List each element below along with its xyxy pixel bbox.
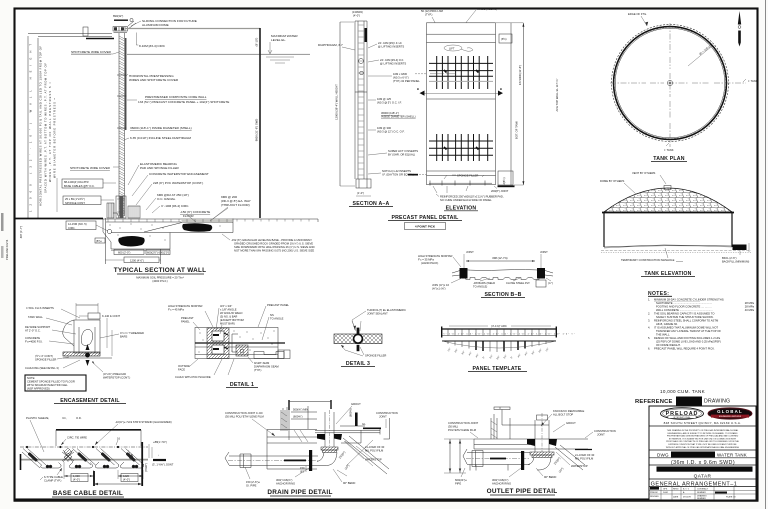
svg-text:PROPRIETARY AND DESIGN FEATURE: PROPRIETARY AND DESIGN FEATURES OF PRELO… [667, 435, 739, 438]
base cable detail: top labels [26, 416, 172, 452]
outlet pipe detail: left dim lines [444, 439, 474, 473]
svg-text:BOT. OF TANK: BOT. OF TANK [515, 121, 519, 139]
tank elevation: manhole callout [621, 248, 683, 262]
typical wall section: concrete floor callout [180, 210, 210, 218]
svg-text:150 (2'-6")⌀: 150 (2'-6")⌀ [246, 480, 260, 484]
panel template: rotated dims below [447, 347, 550, 360]
precast panel elevation: rubber pad note [436, 194, 504, 202]
svg-text:AVG TOP WALL EL 117'-¾": AVG TOP WALL EL 117'-¾" [555, 78, 559, 111]
svg-text:GLOBAL: GLOBAL [717, 409, 743, 414]
typical wall section: wall top cap / sliding connection [83, 14, 136, 39]
svg-text:ALL BOLT STOP: ALL BOLT STOP [553, 413, 573, 417]
svg-text:WITHOUT APPROVAL OF PRELOAD IN: WITHOUT APPROVAL OF PRELOAD INTERNATIONA… [666, 446, 740, 449]
svg-text:890(32"): 890(32") [113, 14, 123, 18]
drain pipe detail: grout callout [336, 402, 361, 424]
svg-text:THIOKOL(?) EL ELASTOMERIC: THIOKOL(?) EL ELASTOMERIC [367, 308, 406, 312]
svg-text:LEVEL EL.: LEVEL EL. [271, 38, 286, 42]
drain pipe detail: vertical pipe [325, 410, 334, 447]
svg-text:28 MPa: 28 MPa [745, 305, 755, 309]
base cable detail: cable loop 2 [69, 449, 95, 469]
svg-text:FOOTING AND FLOOR CONCRETE ...: FOOTING AND FLOOR CONCRETE .... .... ...… [656, 305, 712, 309]
svg-text:JOINT SEALANT: JOINT SEALANT [367, 312, 388, 316]
svg-text:SPONGE FILLER: SPONGE FILLER [35, 358, 56, 362]
svg-text:90° BEND: 90° BEND [544, 475, 556, 479]
section A-A: right callouts [368, 41, 420, 177]
typical wall section: inside diameter callout [130, 126, 192, 130]
svg-text:EDGE OF FTG.: EDGE OF FTG. [628, 12, 647, 16]
svg-text:DGM: DGM [663, 492, 668, 494]
svg-text:09/12/78: 09/12/78 [683, 497, 692, 499]
svg-text:(THRUOUT FLOOR): (THRUOUT FLOOR) [221, 203, 250, 207]
svg-text:SUPER LIFT II INSERTS: SUPER LIFT II INSERTS [388, 149, 418, 153]
base cable detail: cable loop 3 [95, 449, 119, 469]
svg-text:(EXCEPT BOTTOM: (EXCEPT BOTTOM [220, 318, 245, 322]
svg-text:10M @ 125: 10M @ 125 [377, 97, 391, 101]
svg-text:(N0.3 @ 5") O.C. I.F.: (N0.3 @ 5") O.C. I.F. [377, 101, 402, 105]
svg-text:3 '-10M [#3-4] CIRC.: 3 '-10M [#3-4] CIRC. [161, 204, 189, 208]
svg-text:6.35 (0.010") INCLINE STEEL DI: 6.35 (0.010") INCLINE STEEL DIAPHRAGM [130, 136, 191, 140]
typical wall section: pvc waterstop callout [136, 181, 203, 205]
svg-text:SECTION B–B: SECTION B–B [484, 292, 521, 298]
typical wall section: base cable box callouts left [62, 179, 116, 231]
svg-text:SPACED WITH WIRES ,P.T. AT BO: SPACED WITH WIRES ,P.T. AT BOTTOM TO WIR… [44, 63, 48, 193]
svg-text:BY PATENTS. IT IS SUBMITTED FO: BY PATENTS. IT IS SUBMITTED FOR USE ONLY… [669, 437, 737, 440]
svg-text:300("x⅜6(⅜"): 300("x⅜6(⅜") [276, 478, 293, 482]
svg-text:500(⅜") MIN.: 500(⅜") MIN. [293, 408, 309, 412]
svg-text:CLAMP (TYP.): CLAMP (TYP.) [44, 479, 61, 483]
svg-text:PLATE: 18: PLATE: 18 [726, 496, 736, 499]
svg-text:NUMBER: NUMBER [697, 492, 706, 494]
svg-text:WALL CONCRETE ................: WALL CONCRETE ..........................… [656, 308, 713, 312]
detail 3: sponge filler callout [341, 345, 386, 358]
svg-text:MIL POLYFILM: MIL POLYFILM [575, 457, 594, 461]
outlet pipe detail: right diagonals [553, 445, 595, 474]
svg-text:1,000: 1,000 [73, 474, 80, 478]
svg-text:B: B [417, 87, 419, 91]
svg-text:(4'-0"): (4'-0") [123, 478, 130, 482]
svg-text:(TYP.): (TYP.) [425, 13, 433, 17]
encasement detail: right callouts [92, 314, 144, 380]
outlet pipe detail: floor slab [474, 439, 592, 450]
typical wall section: left small box [95, 238, 105, 243]
svg-text:GROUT: GROUT [351, 402, 361, 406]
svg-text:36000 (118'-1") INSIDE DIAMETE: 36000 (118'-1") INSIDE DIAMETER (SHELL) [130, 126, 192, 130]
detail 1: title [226, 382, 258, 388]
typical wall section: floor rebar callout [210, 195, 251, 221]
svg-text:600 (2'-0"): 600 (2'-0") [118, 251, 130, 255]
svg-text:1.: 1. [648, 298, 650, 302]
typical wall section: rotated dims on boundary [255, 38, 259, 142]
svg-text:PROPOSALS OR CONTRACTS OF PREL: PROPOSALS OR CONTRACTS OF PRELOAD OR ITS… [666, 440, 739, 443]
base cable detail: heavy verticals [94, 442, 142, 486]
svg-text:B: B [500, 87, 502, 91]
svg-text:SHOTCRETE WIRE COVER: SHOTCRETE WIRE COVER [70, 166, 111, 170]
svg-text:4 POINT PICK: 4 POINT PICK [415, 225, 436, 229]
tank elevation: backfill block [733, 245, 747, 251]
tank elevation: tank wall [604, 212, 732, 247]
precast panel elevation: main rectangle [427, 23, 496, 185]
panel template: arc dim [449, 324, 551, 328]
svg-text:⅜"x ¾" THREADED: ⅜"x ¾" THREADED [120, 331, 144, 335]
section A-A: title [349, 201, 393, 207]
precast panel elevation: lower grid extras [444, 147, 479, 150]
precast panel elevation: sponge filler band [444, 174, 484, 180]
svg-text:THE WALL.: THE WALL. [656, 333, 670, 337]
svg-text:28 MPa: 28 MPa [745, 301, 755, 305]
svg-text:50 (12) PROJ.-6M: 50 (12) PROJ.-6M [421, 9, 444, 13]
svg-text:10,000 CUM. TANK: 10,000 CUM. TANK [660, 389, 706, 394]
svg-text:24'- 10M [#3-4] O.F.: 24'- 10M [#3-4] O.F. [380, 58, 404, 62]
svg-text:OUTSIDE: OUTSIDE [178, 364, 190, 368]
svg-text:CIRC.: CIRC. [68, 226, 76, 230]
typical wall section: circ bars callout [152, 204, 189, 213]
svg-text:9600 (31'-6") SWD: 9600 (31'-6") SWD [255, 119, 259, 141]
typical wall section: maximum water level [127, 34, 310, 63]
svg-text:VENT BY OTHERS: VENT BY OTHERS [632, 171, 656, 175]
precast panel elevation: right dim lines [496, 23, 559, 185]
drain pipe detail: construction joint right [376, 411, 398, 428]
svg-text:228 (9") PVC WATERSTOP (CONT.): 228 (9") PVC WATERSTOP (CONT.) [153, 181, 203, 185]
svg-text:REVISED: REVISED [650, 496, 659, 498]
drain pipe detail: waterstop wedges [317, 434, 342, 440]
notes header [648, 291, 672, 297]
drain pipe detail: 90 bend callout [333, 469, 355, 485]
typical wall section: waterstop encasement callout [132, 172, 209, 196]
svg-text:CONSTRUCTION: CONSTRUCTION [594, 429, 616, 433]
base cable detail: top bracket [56, 430, 141, 446]
svg-text:THE SOIL BEARING CAPACITY IS A: THE SOIL BEARING CAPACITY IS ASSUMED TO [654, 312, 714, 316]
svg-text:-10(⅜")⌀ 7x19 STR'D STRAND (GA: -10(⅜")⌀ 7x19 STR'D STRAND (GALVANIZED) [115, 420, 172, 424]
svg-text:TYPICAL SECTION AT WALL: TYPICAL SECTION AT WALL [114, 267, 207, 274]
svg-text:1200 (4'-0"): 1200 (4'-0") [130, 259, 144, 263]
outlet pipe detail: horizontal pipe [463, 449, 530, 471]
svg-text:I.D.,: I.D., [62, 416, 67, 420]
svg-text:PRESTRESSED COMPOSITE CORE WAL: PRESTRESSED COMPOSITE CORE WALL [145, 95, 207, 99]
typical wall section: steel diaphragm callout [124, 136, 191, 140]
precast panel elevation: titles [388, 206, 478, 230]
svg-text:MIL POLYFILM: MIL POLYFILM [365, 449, 384, 453]
svg-text:PRELIM: PRELIM [650, 492, 658, 494]
svg-text:DETAIL 1: DETAIL 1 [230, 382, 254, 388]
svg-text:(600⅜"): (600⅜") [293, 415, 303, 419]
outlet pipe detail: anchor ring callout [492, 468, 521, 486]
section B-B: dim line [466, 256, 535, 262]
svg-text:LIFT: LIFT [449, 47, 455, 51]
svg-text:2(6½): 2(6½) [502, 177, 506, 184]
svg-text:3.: 3. [648, 319, 650, 323]
svg-text:ALUMINUM DOME: ALUMINUM DOME [142, 23, 169, 27]
drain pipe detail: slab right segment [341, 430, 361, 443]
encasement detail: floor hatch strip [63, 344, 112, 366]
section B-B: bottom-left callout [432, 278, 462, 291]
typical wall section: base cable bundle blob [118, 236, 144, 247]
svg-text:CONSTRUCTION JOINT C-CD: CONSTRUCTION JOINT C-CD [225, 411, 263, 415]
base cable detail: dim 1220 [118, 470, 143, 482]
tank elevation: grade lines [601, 246, 751, 253]
svg-text:NS: NS [270, 313, 274, 317]
svg-text:(5) NS. & BAR: (5) NS. & BAR [220, 315, 237, 319]
svg-text:OUTLET PIPE DETAIL: OUTLET PIPE DETAIL [487, 488, 558, 495]
svg-text:(8")⌀: (8")⌀ [96, 239, 102, 243]
svg-text:BASE CABLES @5" O.C.: BASE CABLES @5" O.C. [64, 184, 95, 188]
tank plan: radius dim [688, 43, 712, 66]
section B-B: right small detail [536, 278, 553, 287]
outlet pipe detail: elbow [528, 458, 551, 471]
svg-text:#98 (12'-7⅜): #98 (12'-7⅜) [492, 256, 507, 260]
svg-text:88-1400(4') DIA #TR: 88-1400(4') DIA #TR [64, 180, 89, 184]
svg-text:JOINT: JOINT [379, 415, 387, 419]
svg-text:O.D.: O.D. [76, 416, 82, 420]
svg-text:CONTRACT: CONTRACT [697, 488, 709, 491]
section B-B: mortar callout [418, 254, 461, 267]
svg-text:BACKFILL (MINIMUM): BACKFILL (MINIMUM) [722, 260, 749, 264]
svg-text:600(24")⌀: 600(24")⌀ [455, 478, 467, 482]
notes list [648, 298, 755, 351]
typical wall section: circ wires callout [136, 33, 165, 49]
detail 1: center angle parts [232, 334, 248, 356]
svg-text:SECTION A–A: SECTION A–A [353, 201, 390, 207]
svg-text:1220: 1220 [123, 474, 129, 478]
svg-text:SPONGE CONT.: SPONGE CONT. [65, 201, 86, 205]
svg-text:CONCRETE: CONCRETE [25, 336, 40, 340]
svg-text:GPS: GPS [663, 489, 668, 491]
svg-text:(N0.3 @ 12") O.C. O.F.: (N0.3 @ 12") O.C. O.F. [377, 130, 405, 134]
section B-B: joint leaders [464, 250, 548, 268]
outlet pipe detail: construction joint callout left [448, 421, 479, 438]
tank plan: centerline labels [664, 79, 758, 152]
tank plan: title [651, 156, 687, 162]
svg-text:(1'-0"): (1'-0") [357, 191, 364, 195]
typical wall section: waterstop circle at footing [107, 229, 111, 233]
svg-text:JOIN (⅜")x 16: JOIN (⅜")x 16 [432, 283, 449, 287]
svg-text:ENCASEMENT DETAIL: ENCASEMENT DETAIL [60, 398, 120, 404]
svg-text:REINFORCED 250"x600(10"x1'11½": REINFORCED 250"x600(10"x1'11½") RUBBER P… [440, 195, 504, 199]
precast panel elevation: lift symbol [444, 45, 473, 51]
svg-text:12000 (39'-4") WALL HEIGHT: 12000 (39'-4") WALL HEIGHT [335, 84, 339, 120]
svg-text:¾" 1'0" 1'0" 1'0" 1'0" 1'0" 1': ¾" 1'0" 1'0" 1'0" 1'0" 1'0" 1'0" 1'0" 1'… [443, 332, 576, 335]
typical wall section: composite core wall callout [127, 95, 229, 104]
svg-text:WATERSTOP: WATERSTOP [571, 464, 588, 468]
svg-text:GROUT: GROUT [566, 421, 576, 425]
svg-text:GL: GL [362, 422, 366, 426]
typical wall section: elastomeric bearing callout [128, 162, 180, 185]
typical wall section: horizontal prestressing callout [126, 74, 179, 82]
typical wall section: wall core with hatch [117, 33, 127, 216]
svg-text:(6½): (6½) [501, 37, 507, 41]
outlet pipe detail: waterstop wedges [527, 439, 557, 446]
svg-text:DRAIN PIPE DETAIL: DRAIN PIPE DETAIL [267, 489, 332, 496]
tank elevation: vent on dome [664, 186, 671, 190]
svg-text:10M @ 300: 10M @ 300 [377, 126, 391, 130]
svg-text:3/4" x 3/4": 3/4" x 3/4" [220, 304, 232, 308]
typical wall section: shotcrete wire cover callout (top) [71, 50, 119, 54]
base cable detail: tie wire callout [61, 436, 120, 446]
base cable detail: cable loop 1 [22, 449, 61, 469]
precast panel elevation: lower insert grid [429, 134, 493, 161]
drain pipe detail: horizontal pipe [225, 452, 318, 468]
detail 1: panel strip body [195, 328, 285, 359]
encasement detail: title [54, 398, 126, 404]
outlet pipe detail: 90 bend callout [536, 468, 556, 479]
svg-text:ℂ TANK: ℂ TANK [748, 79, 758, 83]
svg-text:CONSTRUCTION: CONSTRUCTION [376, 411, 398, 415]
svg-text:JOINT: JOINT [540, 250, 548, 254]
encasement detail: left callouts [25, 306, 80, 370]
svg-text:NOTE:: NOTE: [27, 376, 35, 380]
svg-text:BARS: BARS [120, 335, 128, 339]
detail 1: top callouts [168, 303, 290, 340]
svg-text:(⅜"x⅜") PRELOAD: (⅜"x⅜") PRELOAD [103, 372, 126, 376]
svg-text:CAULK WITH POLYSULFIDE: CAULK WITH POLYSULFIDE [175, 375, 211, 379]
outlet pipe detail: construction joint right [585, 429, 616, 438]
base cable detail: base gray strand [20, 459, 148, 461]
svg-text:6-TYPE CABLE: 6-TYPE CABLE [44, 475, 63, 479]
svg-text:(130903): (130903) [352, 10, 363, 14]
detail 1: concrete dots [199, 331, 275, 353]
svg-text:O.C. RADIAL: O.C. RADIAL [157, 197, 176, 201]
typical wall section: right section boundary [259, 28, 261, 218]
svg-text:GRADED CRUSHED ROCK GRADED FRO: GRADED CRUSHED ROCK GRADED FROM 19 (¾") … [234, 242, 313, 246]
drain pipe detail: small left dims [300, 466, 306, 474]
svg-text:300("x⅜6(⅜"): 300("x⅜6(⅜") [492, 478, 509, 482]
svg-text:JOINT: JOINT [597, 433, 605, 437]
svg-text:(4000 P.S.F.): (4000 P.S.F.) [152, 279, 167, 283]
section B-B: bars callout [473, 278, 530, 289]
svg-text:(25 PSF) OF DOME LIVE LOAD AND: (25 PSF) OF DOME LIVE LOAD AND 0.25 kPa(… [656, 340, 721, 344]
svg-text:TRANSFER ANY LATERAL THRUST AT: TRANSFER ANY LATERAL THRUST AT THE TOP O… [656, 329, 721, 333]
svg-text:WATERSTOP (CONT.): WATERSTOP (CONT.) [103, 376, 130, 380]
typical wall section: floor rebar blob [182, 223, 212, 232]
svg-text:A615, GRADE 60.: A615, GRADE 60. [656, 322, 678, 326]
svg-text:2-LAYER OF 30: 2-LAYER OF 30 [365, 445, 385, 449]
svg-text:2-LAYER OF 30: 2-LAYER OF 30 [575, 453, 595, 457]
section A-A: diaphragm callout left [318, 43, 355, 50]
svg-text:MAXIMUM SOIL PRESSURE = 20 T/m: MAXIMUM SOIL PRESSURE = 20 T/m² [136, 276, 184, 280]
precast panel elevation: top callouts [421, 7, 512, 43]
svg-text:200(8") JOINT: 200(8") JOINT [491, 189, 509, 193]
precast panel elevation: B section markers [417, 87, 503, 96]
svg-text:TANK PLAN: TANK PLAN [653, 156, 684, 162]
svg-text:INSIDE DIAMETER (SHELL): INSIDE DIAMETER (SHELL) [381, 115, 416, 119]
section A-A: wall column [355, 21, 367, 179]
tank elevation: title [641, 271, 695, 277]
svg-text:16: 16 [117, 437, 120, 441]
svg-text:TO ANGLE: TO ANGLE [270, 317, 284, 321]
svg-text:848 SOUTH STREET QUINCY, M: 848 SOUTH STREET QUINCY, MA 02169 U.S.A. [664, 421, 742, 425]
svg-text:600(2'0") 600(2'0"): 600(2'0") 600(2'0") [147, 251, 169, 255]
svg-text:CIRC. TIE WIRE: CIRC. TIE WIRE [67, 436, 87, 440]
svg-text:W/ ANCH'D WELD: W/ ANCH'D WELD [220, 311, 243, 315]
svg-text:(3'-1⅜)" ARC: (3'-1⅜)" ARC [491, 324, 507, 328]
svg-text:SPONGE FILLER: SPONGE FILLER [365, 354, 386, 358]
svg-text:BKFL (2'-6"): BKFL (2'-6") [722, 256, 737, 260]
svg-text:ENGINEERING SERVICES: ENGINEERING SERVICES [719, 416, 742, 418]
svg-text:TO ANGLE): TO ANGLE) [473, 285, 487, 289]
svg-text:DETAIL 3: DETAIL 3 [346, 361, 370, 367]
drain pipe detail: bend dims [337, 450, 350, 476]
title block: disclaimer paragraph [666, 429, 740, 449]
svg-text:POLYETHYLENE FILM: POLYETHYLENE FILM [448, 428, 477, 432]
svg-text:CEMENT SPONGE FILLED TO FLOOR: CEMENT SPONGE FILLED TO FLOOR [27, 380, 75, 384]
drain pipe detail: top dimension bracket [289, 400, 331, 440]
svg-text:ℂ TANK: ℂ TANK [664, 148, 674, 152]
svg-text:INTERNATIONAL: INTERNATIONAL [673, 416, 691, 419]
svg-text:@ LIFTING INSERTS: @ LIFTING INSERTS [378, 45, 404, 49]
section A-A: left dim line [335, 22, 356, 186]
svg-text:(9'-10"): (9'-10") [255, 38, 259, 47]
tank plan: north arrow [738, 11, 741, 47]
svg-text:DE WIRE SUPPORT: DE WIRE SUPPORT [25, 325, 51, 329]
typical wall section: granular base note [222, 234, 315, 253]
svg-text:90° BEND: 90° BEND [343, 481, 355, 485]
base cable detail: clamp callout [40, 468, 63, 483]
precast panel elevation: bottom right box [498, 171, 515, 187]
svg-text:MINIMUM 28-DAY CONCRETE CYLIND: MINIMUM 28-DAY CONCRETE CYLINDER STRENGT… [654, 298, 724, 302]
precast panel elevation: upper insert grid [429, 56, 493, 89]
svg-text:WIRES ,P.T. AT TOP OF WALL PR: WIRES ,P.T. AT TOP OF WALL PRESTRESS 5 = [48, 82, 52, 182]
svg-text:CONCRETE WATERSTOP ENCASEMENT: CONCRETE WATERSTOP ENCASEMENT [149, 172, 209, 176]
title block: preload logo [661, 408, 704, 420]
panel template: datum line [442, 340, 556, 342]
drain pipe detail: anchor flange bar [309, 450, 312, 471]
tank elevation: dome callout [600, 179, 636, 194]
title block: dwg water tank row [657, 452, 747, 458]
svg-text:SHOTCRETE ....................: SHOTCRETE ..............................… [656, 301, 712, 305]
title block: reference drawing row [635, 397, 730, 407]
panel template: drop lines with sag [442, 341, 556, 352]
svg-text:DIAPHRAGM, 6.7: DIAPHRAGM, 6.7 [318, 43, 343, 47]
base cable detail: centerline dashed [20, 446, 148, 448]
base cable detail: wire dots on centerline [26, 446, 119, 448]
svg-text:ANCHOR RING: ANCHOR RING [276, 482, 295, 486]
svg-text:NOTCH (1-42 INSERTS: NOTCH (1-42 INSERTS [382, 169, 411, 173]
svg-text:F'c=4000 P.S.I.: F'c=4000 P.S.I. [25, 340, 43, 344]
detail 1: bottom callouts [175, 357, 279, 379]
encasement detail: note box [25, 375, 86, 391]
svg-text:150: 150 [300, 466, 305, 470]
page edge line right [765, 0, 767, 509]
svg-text:36000 (118'-1"): 36000 (118'-1") [381, 111, 399, 115]
svg-text:(TYP.) 32 PER PANEL: (TYP.) 32 PER PANEL [393, 79, 420, 83]
section A-A: top dim [352, 10, 363, 18]
svg-text:PRECAST PANEL WILL REQUIRE 4 P: PRECAST PANEL WILL REQUIRE 4 POINT PICK. [654, 347, 715, 351]
base cable detail: left tick bar [20, 454, 22, 470]
typical wall section: ground line left [15, 218, 103, 220]
detail 1: right step end [254, 350, 290, 359]
notes underline mark [654, 300, 700, 302]
svg-text:REFERENCE: REFERENCE [635, 399, 673, 405]
svg-text:12-15M (NO. 5): 12-15M (NO. 5) [68, 222, 87, 226]
typical wall section: floor rebar ticks [108, 219, 309, 251]
section B-B: title [481, 292, 525, 298]
base cable detail: title [52, 490, 124, 497]
tank elevation: backfill dim [722, 243, 749, 264]
svg-text:CLOSE STEEL PLT.: CLOSE STEEL PLT. [506, 281, 530, 285]
svg-text:F'c = 45 MPa: F'c = 45 MPa [168, 308, 184, 312]
title block: revision table [649, 487, 756, 501]
svg-text:PLASTIC SLEEVE,: PLASTIC SLEEVE, [26, 416, 49, 420]
drain pipe detail: elbow [317, 453, 337, 466]
svg-text:(600⅜): (600⅜) [349, 408, 353, 417]
drain pipe detail: floor slab block [267, 430, 317, 470]
typical wall section: title [114, 267, 207, 283]
svg-text:x 1/8" ANGLE: x 1/8" ANGLE [220, 308, 237, 312]
svg-text:DIAPHRAGM SEAM: DIAPHRAGM SEAM [254, 365, 279, 369]
svg-text:(NSF APPROVED): (NSF APPROVED) [27, 387, 50, 391]
svg-text:SO CURE UNDER EACH SIDE OF PAN: SO CURE UNDER EACH SIDE OF PANEL [440, 198, 492, 202]
svg-text:WIRE DIAMETER BEFORE PRESTRESS: WIRE DIAMETER BEFORE PRESTRESS = [53, 98, 57, 178]
svg-text:DESIGN OF WALL AND FOOTING INC: DESIGN OF WALL AND FOOTING INCLUDES 1.2 … [654, 336, 721, 340]
